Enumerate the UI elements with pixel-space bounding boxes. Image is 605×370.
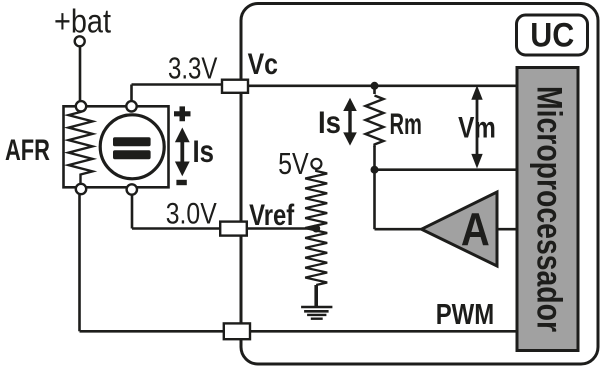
wire 3.3V vertical to AFR xyxy=(130,85,133,107)
sensor equals bar top xyxy=(113,137,151,146)
wire Rm bottom lead xyxy=(373,146,376,170)
svg-text:5V: 5V xyxy=(278,146,309,181)
wire AFR to Vref vertical xyxy=(131,190,134,229)
wire Vref pad to divider tap xyxy=(247,227,316,230)
ground symbol xyxy=(301,307,332,319)
terminal circle AFR bottom-left xyxy=(76,184,86,194)
minus sign for Is polarity xyxy=(176,180,186,185)
svg-text:Is: Is xyxy=(193,133,215,169)
svg-text:3.0V: 3.0V xyxy=(166,198,217,231)
svg-text:3.3V: 3.3V xyxy=(168,52,218,86)
op-amp A xyxy=(422,192,498,266)
wire amp output to micro xyxy=(497,228,517,231)
wire 3.0V horizontal to Vref pad xyxy=(132,227,220,230)
svg-text:UC: UC xyxy=(530,16,574,54)
wire PWM left horizontal xyxy=(80,330,224,333)
svg-text:+bat: +bat xyxy=(54,3,111,40)
terminal circle AFR bottom-right xyxy=(127,184,137,194)
wire AFR left down xyxy=(78,190,81,331)
plus sign for Is polarity xyxy=(174,106,191,121)
Is arrow (measure current) double-headed xyxy=(343,98,357,146)
ground lead xyxy=(314,285,318,306)
resistor Rm xyxy=(366,96,384,148)
microprocessor block xyxy=(517,68,578,351)
wire Vm bottom net xyxy=(375,168,518,171)
pad Vref xyxy=(220,222,247,236)
wire Vc net horizontal xyxy=(248,85,517,88)
svg-text:AFR: AFR xyxy=(5,134,50,167)
wire Rm bottom to amp input vertical xyxy=(373,170,376,230)
lambda sensor circle xyxy=(100,115,164,179)
terminal circle AFR top-left xyxy=(76,101,86,111)
wire +bat vertical xyxy=(79,46,82,106)
svg-text:Vm: Vm xyxy=(458,111,496,144)
wire Rm top lead xyxy=(373,86,376,94)
pad PWM xyxy=(224,323,250,339)
node junction dot Rm bottom xyxy=(371,166,379,174)
wire 3.3V horizontal xyxy=(132,83,223,86)
wire amp input horizontal xyxy=(375,228,425,231)
divider resistor from 5V xyxy=(305,169,327,285)
Vm arrow double-headed xyxy=(471,85,482,168)
5V terminal circle xyxy=(311,159,321,169)
AFR sensor box xyxy=(64,106,169,187)
node junction dot divider tap xyxy=(312,225,320,233)
node junction dot Vc/Rm xyxy=(371,82,379,90)
terminal circle AFR top-right xyxy=(126,101,136,111)
svg-text:Rm: Rm xyxy=(390,108,422,141)
svg-text:Vc: Vc xyxy=(248,48,278,81)
pad Vc xyxy=(222,80,248,93)
svg-text:Vref: Vref xyxy=(249,199,295,232)
svg-text:PWM: PWM xyxy=(436,299,495,331)
UC main box outline xyxy=(241,4,598,365)
svg-text:Microprocessador: Microprocessador xyxy=(530,86,569,332)
svg-text:A: A xyxy=(461,204,490,255)
svg-text:Is: Is xyxy=(318,104,341,140)
wire PWM right horizontal xyxy=(250,330,517,333)
battery terminal circle xyxy=(75,36,85,46)
sensor equals bar bottom xyxy=(113,150,151,159)
resistor inside AFR xyxy=(69,106,93,187)
UC label box U1 xyxy=(517,15,588,55)
Is arrow (sensor current) double-headed xyxy=(175,128,190,177)
